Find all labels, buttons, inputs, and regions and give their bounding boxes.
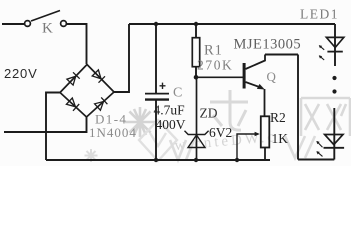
LED1 arrows xyxy=(319,46,324,50)
wire: collector down right edge xyxy=(297,55,299,160)
LED1 cathode lead xyxy=(334,52,336,66)
switch K arm xyxy=(31,11,60,22)
diode D lower-left xyxy=(66,98,79,111)
watermark glyph right net xyxy=(301,98,350,136)
resistor R1 top lead xyxy=(195,24,197,38)
zener ZD triangle xyxy=(188,135,205,148)
bridge rectifier frame D1-4 xyxy=(60,65,114,118)
resistor R2 bottom lead xyxy=(264,148,266,161)
wire: top plus rail xyxy=(129,23,335,25)
LEDn triangle xyxy=(325,135,343,145)
svg-text:LED1: LED1 xyxy=(300,7,339,22)
wire: 220V neutral lead to bridge bottom xyxy=(4,117,87,132)
capacitor C top lead xyxy=(155,24,157,93)
diode D upper-left xyxy=(67,72,80,85)
capacitor plus sign xyxy=(160,83,166,89)
svg-text:R2: R2 xyxy=(270,110,286,125)
LEDn cathode lead xyxy=(333,148,335,160)
LEDn anode lead xyxy=(333,108,335,148)
wire: R2 wiper from minus rail xyxy=(237,134,255,160)
LED1 cathode bar xyxy=(327,51,342,53)
transistor Q base bar xyxy=(243,63,246,89)
watermark starburst small xyxy=(85,149,98,162)
svg-text:MJE13005: MJE13005 xyxy=(234,37,302,53)
svg-text:Q: Q xyxy=(267,69,277,84)
node: R1 top junction xyxy=(194,22,198,26)
wire: bridge right stub to plus rail xyxy=(114,24,129,92)
resistor R1 body xyxy=(192,38,199,67)
wire: bottom minus rail xyxy=(46,159,270,161)
node: series dots xyxy=(332,76,336,80)
zener ZD cathode lead xyxy=(196,77,198,160)
transistor Q emitter with arrow xyxy=(246,82,262,88)
capacitor C bottom lead xyxy=(155,101,157,161)
svg-text:ZD: ZD xyxy=(200,106,218,121)
LEDn arrows xyxy=(317,141,323,147)
zener ZD cathode bar with ticks xyxy=(185,131,209,135)
wire: switch to bridge top xyxy=(67,24,87,64)
watermark lattice piece xyxy=(170,136,315,160)
svg-text:K: K xyxy=(42,21,53,37)
svg-text:4.7uF: 4.7uF xyxy=(154,103,186,118)
wire: bridge left stub to minus rail xyxy=(46,93,60,161)
wire: 220V live lead xyxy=(2,23,25,25)
node: C minus junction xyxy=(154,158,158,162)
svg-text:220V: 220V xyxy=(4,66,38,81)
diode D upper-right xyxy=(92,70,105,83)
capacitor C plates xyxy=(145,93,169,95)
wire: emitter to R2 xyxy=(264,89,266,116)
switch K left contact xyxy=(25,21,31,27)
node: C plus junction xyxy=(154,22,158,26)
LED1 anode lead xyxy=(334,24,336,52)
watermark starburst xyxy=(125,107,155,137)
watermark glyph center xyxy=(210,90,248,130)
watermark shield xyxy=(139,120,177,161)
transistor Q collector xyxy=(246,55,266,70)
svg-text:C: C xyxy=(173,86,182,101)
LEDn cathode bar xyxy=(324,147,345,149)
node: R1 / ZD / base junction xyxy=(194,75,199,80)
wire: LED string return to collector xyxy=(298,159,334,161)
svg-text:1K: 1K xyxy=(272,131,289,146)
svg-text:1N4004: 1N4004 xyxy=(89,125,137,140)
resistor R2 body xyxy=(261,116,270,147)
node: ZD anode junction xyxy=(194,158,198,162)
svg-text:400V: 400V xyxy=(156,117,186,132)
diode D lower-right xyxy=(95,97,108,110)
resistor R1 bottom lead xyxy=(195,67,197,78)
wire: collector top edge xyxy=(265,54,298,56)
LED1 triangle xyxy=(326,37,343,47)
wire: base wire xyxy=(196,76,243,78)
svg-text:6V2: 6V2 xyxy=(209,125,232,140)
node: R2 wiper junction xyxy=(235,158,239,162)
svg-text:270K: 270K xyxy=(197,58,233,73)
R2 wiper arrowhead xyxy=(255,132,260,137)
svg-text:R1: R1 xyxy=(204,43,223,59)
switch K right contact xyxy=(61,21,67,27)
